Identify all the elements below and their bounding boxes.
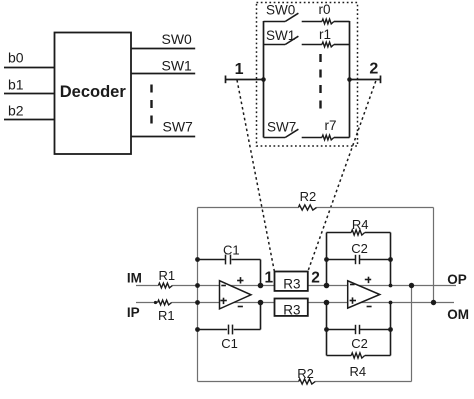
svg-text:R4: R4 [352,217,369,232]
svg-text:b1: b1 [8,77,24,93]
svg-text:1: 1 [235,61,244,78]
svg-text:b2: b2 [8,103,24,119]
svg-text:Decoder: Decoder [60,83,127,101]
svg-text:R2: R2 [300,189,317,204]
svg-text:SW0: SW0 [162,31,193,47]
svg-text:R3: R3 [283,303,300,318]
svg-text:C1: C1 [221,336,238,351]
svg-text:r0: r0 [319,2,331,17]
svg-text:R2: R2 [297,366,314,381]
svg-text:IP: IP [127,305,140,320]
svg-text:OP: OP [447,272,467,287]
svg-text:IM: IM [127,270,142,285]
svg-text:C2: C2 [351,241,368,256]
svg-text:SW7: SW7 [267,120,296,135]
svg-text:1: 1 [264,270,273,287]
svg-text:R3: R3 [283,276,300,291]
svg-text:2: 2 [369,61,378,78]
svg-text:R4: R4 [350,364,367,379]
svg-text:R1: R1 [158,308,175,323]
svg-text:OM: OM [447,307,469,322]
svg-text:SW1: SW1 [162,58,193,74]
svg-text:C2: C2 [351,336,368,351]
svg-text:SW1: SW1 [266,28,295,43]
svg-text:b0: b0 [8,50,24,66]
svg-text:SW0: SW0 [266,3,295,18]
svg-text:r1: r1 [319,27,331,42]
svg-text:2: 2 [311,270,320,287]
svg-text:SW7: SW7 [163,119,194,135]
svg-text:R1: R1 [159,268,176,283]
svg-text:r7: r7 [325,118,337,133]
svg-text:C1: C1 [223,242,240,257]
